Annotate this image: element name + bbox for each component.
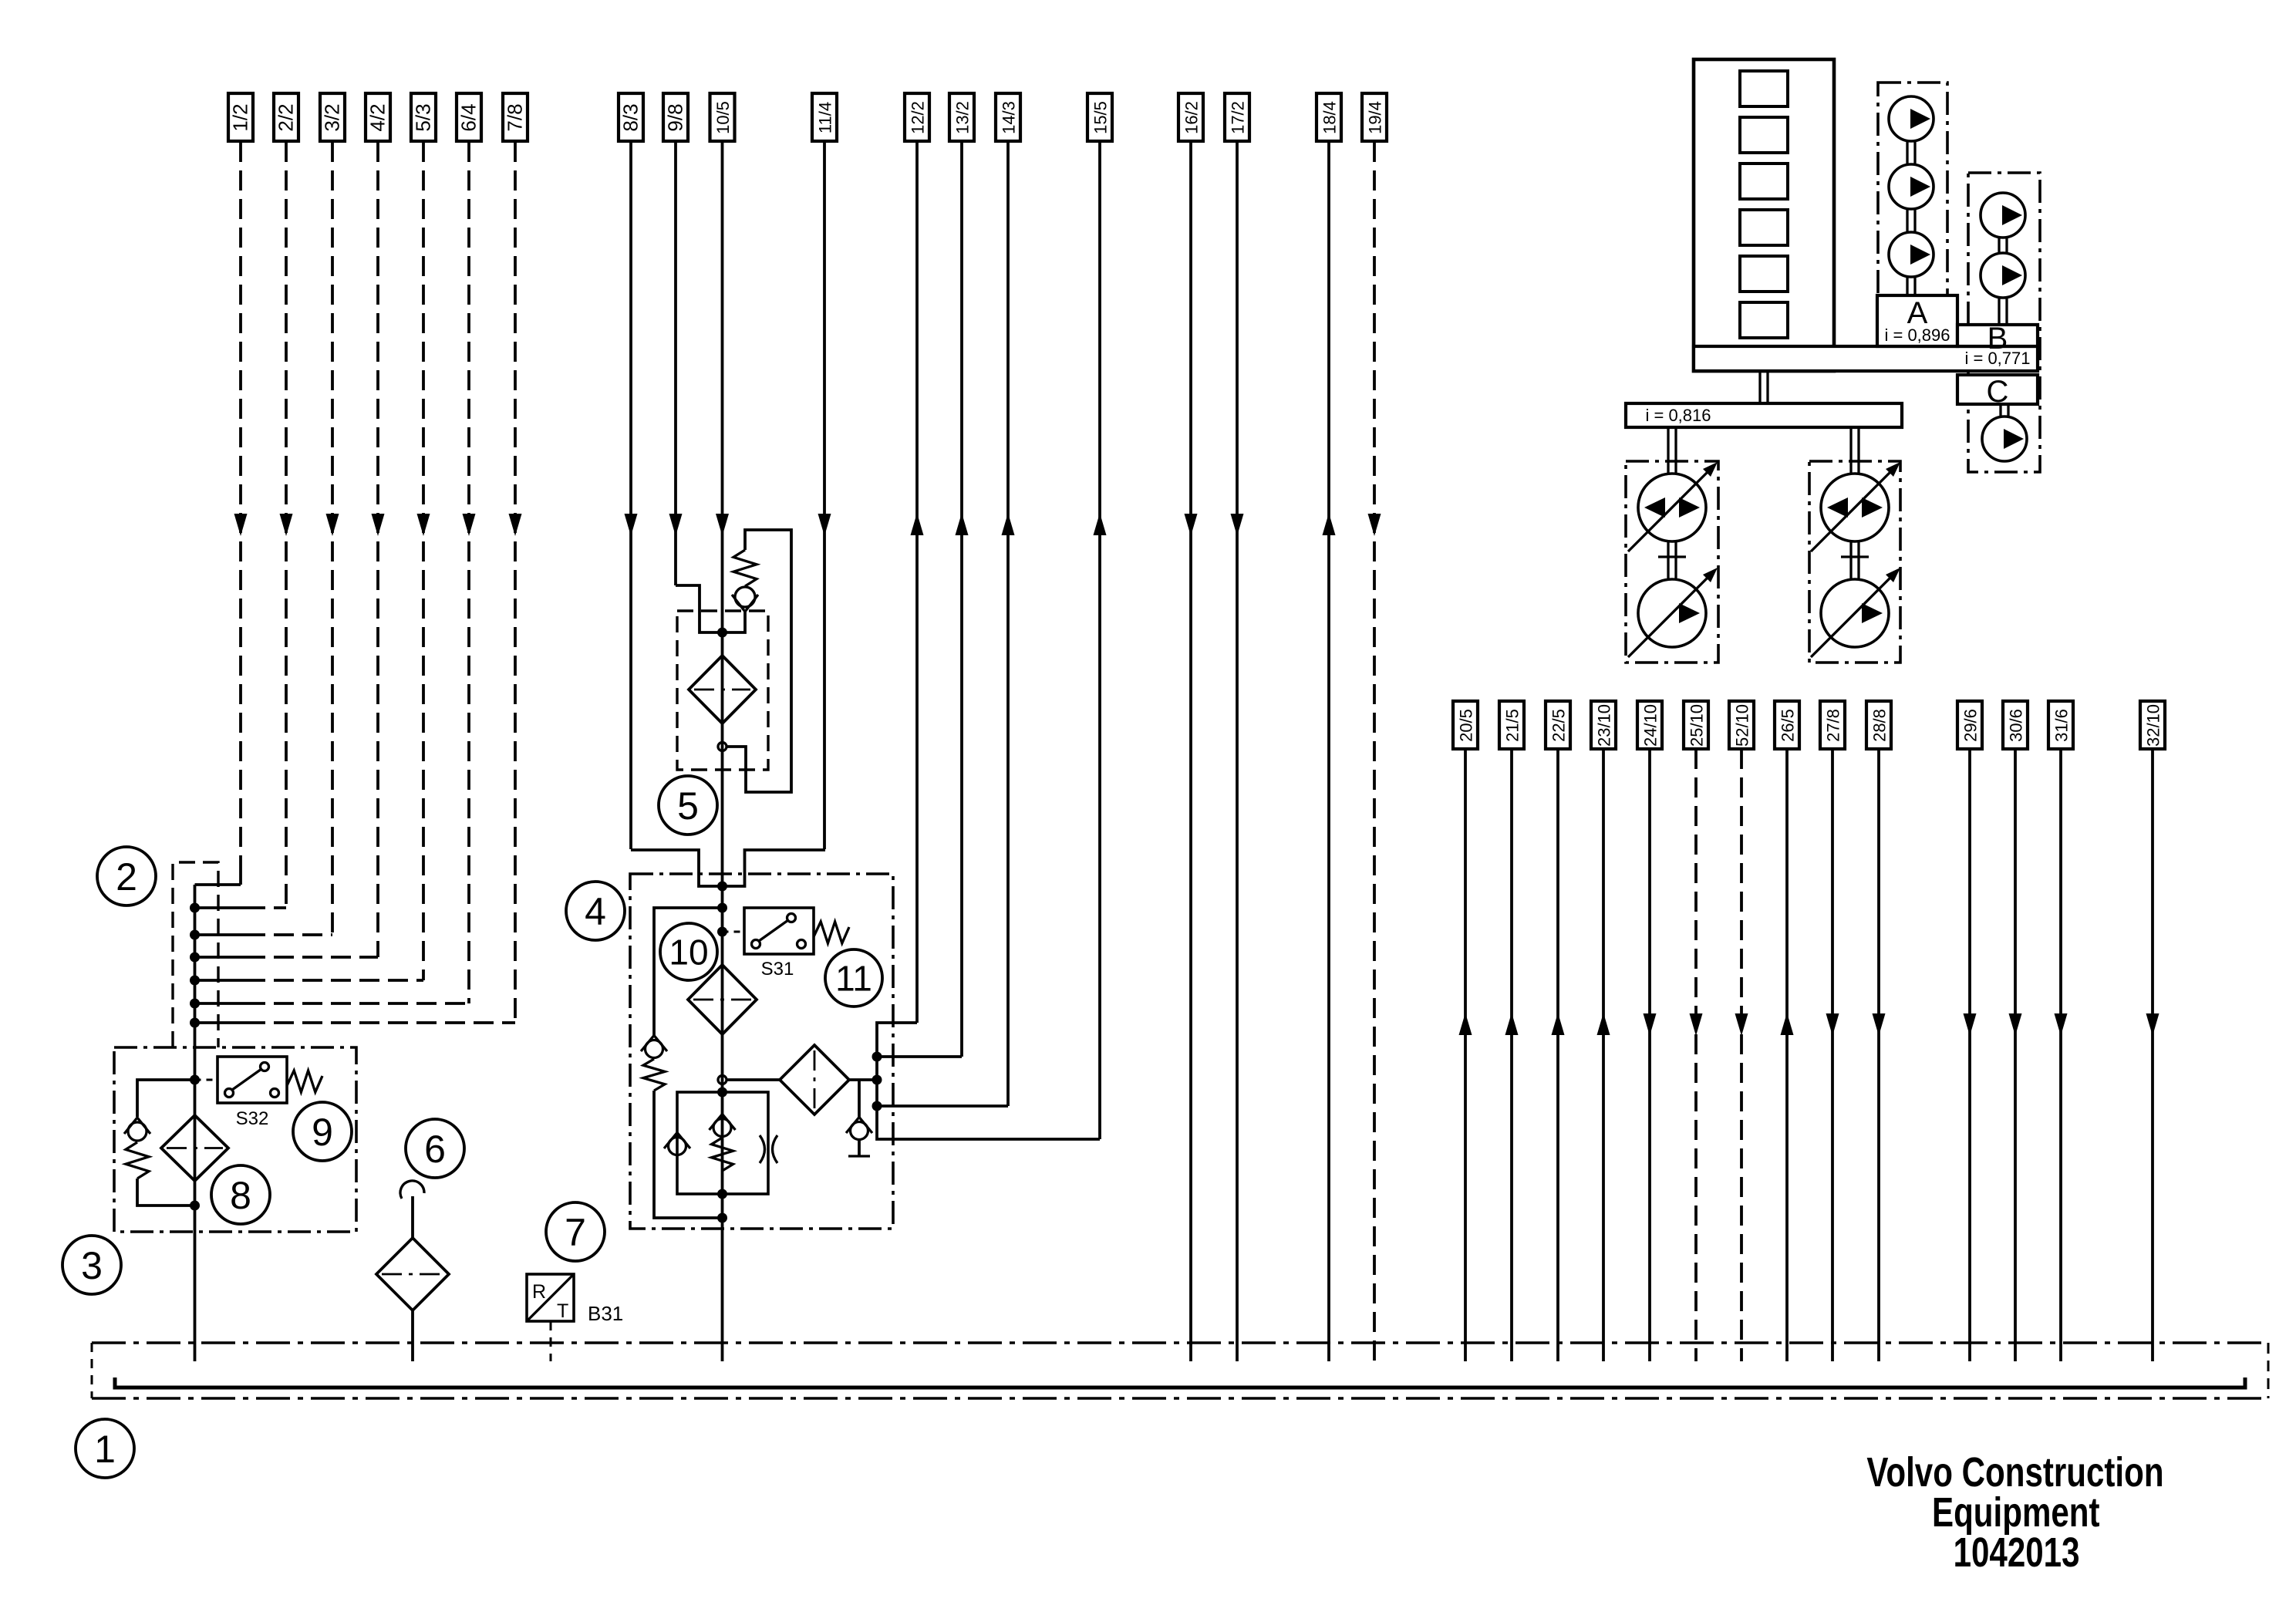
- wire from connector 15/5: [1094, 142, 1107, 1139]
- tank rail top dash-dot line: [92, 1341, 2268, 1344]
- svg-text:9: 9: [312, 1111, 333, 1154]
- callout 3: [62, 1236, 121, 1294]
- svg-text:15/5: 15/5: [1091, 101, 1111, 134]
- callout 4: [566, 882, 625, 940]
- svg-text:S31: S31: [761, 959, 794, 980]
- gear A box: [1877, 295, 1957, 346]
- wire from connector 32/10: [2146, 749, 2159, 1361]
- wire from connector 6/4: [463, 142, 476, 1003]
- svg-text:i = 0,816: i = 0,816: [1645, 406, 1711, 425]
- connector 22/5: [1546, 701, 1570, 749]
- connector 6/4: [457, 93, 481, 141]
- wire from connector 23/10: [1597, 749, 1610, 1361]
- svg-text:27/8: 27/8: [1824, 709, 1843, 742]
- connector 8/3: [619, 93, 643, 141]
- pump C1: [1982, 416, 2027, 461]
- connector 5/3: [411, 93, 436, 141]
- wire from connector 13/2: [956, 142, 969, 1057]
- svg-text:16/2: 16/2: [1182, 101, 1202, 134]
- svg-text:30/6: 30/6: [2007, 709, 2026, 742]
- variable pump left upper: [1628, 462, 1718, 551]
- component 5 enclosure dashed box: [677, 611, 768, 770]
- svg-text:B31: B31: [588, 1302, 623, 1325]
- svg-text:52/10: 52/10: [1733, 704, 1752, 747]
- wire from connector 1/2: [234, 142, 248, 885]
- spring of S32: [287, 1071, 322, 1092]
- junction above filter 5: [717, 628, 727, 638]
- wire from connector 17/2: [1231, 142, 1244, 1361]
- shaft engine band to gear A pumps: [1907, 141, 1915, 295]
- orifice symbol: [760, 1135, 777, 1163]
- wire collector tap 2: [190, 903, 286, 913]
- wire 9/8 staircase into filter 5: [676, 585, 723, 632]
- svg-text:23/10: 23/10: [1595, 704, 1614, 747]
- connector 21/5: [1499, 701, 1524, 749]
- callout 9: [293, 1102, 352, 1161]
- connector 9/8: [663, 93, 688, 141]
- svg-text:25/10: 25/10: [1687, 704, 1707, 747]
- wire from connector 52/10: [1735, 749, 1748, 1361]
- wire from connector 11/4: [818, 142, 831, 849]
- breather 6: [376, 1181, 449, 1361]
- svg-text:T: T: [557, 1300, 568, 1322]
- wire 11/4 staircase into node 4: [723, 850, 826, 886]
- connector 10/5: [710, 93, 735, 141]
- title text: [1866, 1449, 2163, 1576]
- variable pump right lower: [1811, 568, 1900, 657]
- shaft bar to left variable pumps: [1668, 427, 1676, 474]
- shaft gear C pump: [2001, 404, 2008, 417]
- svg-text:10: 10: [669, 932, 708, 973]
- pump group A dash-dot boundary: [1878, 83, 1947, 295]
- pump A2: [1889, 164, 1934, 209]
- svg-text:5/3: 5/3: [412, 103, 435, 131]
- wire from connector 27/8: [1826, 749, 1839, 1361]
- left relief branch of component 4: [641, 908, 723, 1218]
- wire from connector 21/5: [1505, 749, 1519, 1361]
- wire from connector 4/2: [372, 142, 385, 957]
- pump A3: [1889, 232, 1934, 277]
- wire from connector 9/8: [669, 142, 683, 585]
- connector 15/5: [1087, 93, 1112, 141]
- svg-text:32/10: 32/10: [2144, 704, 2163, 747]
- wire from connector 5/3: [417, 142, 430, 980]
- connector 24/10: [1637, 701, 1662, 749]
- pump group B/C dash-dot boundary: [1968, 173, 2040, 472]
- wire from connector 26/5: [1781, 749, 1794, 1361]
- connector 27/8: [1820, 701, 1845, 749]
- engine cylinder 4: [1740, 210, 1788, 245]
- svg-text:3: 3: [81, 1244, 103, 1287]
- wire from connector 3/2: [326, 142, 339, 935]
- connector 28/8: [1866, 701, 1891, 749]
- connector 19/4: [1362, 93, 1387, 141]
- wire from connector 12/2: [911, 142, 924, 1023]
- wire from connector 28/8: [1873, 749, 1886, 1361]
- filter 5 diamond: [689, 656, 756, 723]
- svg-text:1: 1: [94, 1428, 116, 1471]
- filter 8 diamond: [161, 1115, 228, 1181]
- wire collector tap 3: [190, 930, 332, 940]
- component 4 enclosure dash-dot box: [630, 874, 893, 1229]
- connector 4/2: [366, 93, 390, 141]
- wire collector tap 5: [190, 976, 423, 986]
- connector 52/10: [1729, 701, 1754, 749]
- callout 10: [660, 923, 717, 980]
- connector 2/2: [274, 93, 298, 141]
- wire main line to filter 11: [727, 1078, 780, 1081]
- svg-text:9/8: 9/8: [664, 103, 687, 131]
- connector 32/10: [2140, 701, 2165, 749]
- connector 11/4: [812, 93, 837, 141]
- check valve manifold box: [677, 1092, 768, 1194]
- svg-text:7: 7: [565, 1211, 586, 1254]
- engine cylinder 3: [1740, 164, 1788, 199]
- tank rail left end: [91, 1343, 93, 1398]
- svg-text:24/10: 24/10: [1641, 704, 1660, 747]
- variable pump left lower: [1628, 568, 1718, 657]
- connector 1/2: [228, 93, 253, 141]
- coupling shaft right: [1841, 541, 1869, 579]
- wire from connector 18/4: [1323, 142, 1336, 1361]
- callout 7: [546, 1202, 605, 1261]
- svg-text:6/4: 6/4: [457, 103, 480, 131]
- svg-text:22/5: 22/5: [1549, 709, 1569, 742]
- engine cylinder 6: [1740, 302, 1788, 338]
- connector 7/8: [503, 93, 528, 141]
- junction below filter 8: [190, 1201, 200, 1211]
- wire from connector 31/6: [2055, 749, 2068, 1361]
- svg-text:13/2: 13/2: [953, 101, 973, 134]
- wire from connector 7/8: [509, 142, 522, 1023]
- svg-text:28/8: 28/8: [1870, 709, 1890, 742]
- connector 25/10: [1684, 701, 1708, 749]
- middle spring check valve: [710, 1114, 736, 1172]
- drain check valve branch: [846, 1080, 872, 1156]
- svg-text:3/2: 3/2: [321, 103, 344, 131]
- svg-text:B: B: [1988, 322, 2008, 356]
- transfer gearbox bar: [1626, 403, 1902, 427]
- svg-text:4: 4: [585, 890, 606, 933]
- gear B box: [1957, 325, 2038, 346]
- gear C box: [1957, 375, 2038, 404]
- svg-text:1/2: 1/2: [229, 103, 252, 131]
- coupling shaft left: [1658, 541, 1686, 579]
- svg-text:29/6: 29/6: [1961, 709, 1981, 742]
- pump A1: [1889, 96, 1934, 141]
- callout 1: [76, 1419, 134, 1478]
- svg-text:18/4: 18/4: [1320, 101, 1340, 134]
- node collector manifold vertical wire: [194, 885, 197, 1361]
- connector 14/3: [996, 93, 1020, 141]
- svg-text:31/6: 31/6: [2052, 709, 2072, 742]
- tee joining 8/3 and 11/4 to main line: [717, 882, 727, 892]
- engine cylinder 5: [1740, 256, 1788, 292]
- wire collector tap 6: [190, 999, 469, 1009]
- svg-text:8: 8: [230, 1174, 251, 1217]
- wire filter 11 to return rail: [849, 1078, 877, 1081]
- svg-text:i = 0,896: i = 0,896: [1884, 325, 1950, 345]
- connector 29/6: [1957, 701, 1982, 749]
- connector 30/6: [2003, 701, 2028, 749]
- wire collector tap 7: [190, 1018, 515, 1028]
- connector 16/2: [1178, 93, 1203, 141]
- svg-text:2: 2: [116, 855, 137, 899]
- callout 8: [211, 1165, 270, 1224]
- filter 11 diamond: [780, 1045, 849, 1114]
- connector 23/10: [1591, 701, 1616, 749]
- component 3 enclosure dash-dot box: [114, 1047, 356, 1232]
- callout 11: [825, 949, 882, 1007]
- wire from connector 2/2: [280, 142, 293, 908]
- svg-text:R: R: [532, 1281, 546, 1303]
- svg-text:8/3: 8/3: [619, 103, 642, 131]
- engine cylinder 1: [1740, 71, 1788, 106]
- filter 10 diamond: [688, 965, 757, 1034]
- svg-text:11/4: 11/4: [816, 102, 835, 133]
- svg-text:26/5: 26/5: [1778, 709, 1798, 742]
- connector 20/5: [1453, 701, 1478, 749]
- wire from connector 19/4: [1368, 142, 1381, 1361]
- svg-text:C: C: [1987, 375, 2009, 409]
- svg-text:12/2: 12/2: [909, 101, 928, 134]
- svg-text:7/8: 7/8: [504, 103, 527, 131]
- wire 8/3 staircase into node 4: [631, 850, 723, 886]
- bypass relief check valve of component 3: [124, 1080, 195, 1206]
- gearbox output band: [1694, 346, 2038, 371]
- wire from connector 22/5: [1552, 749, 1565, 1361]
- svg-text:2/2: 2/2: [275, 103, 298, 131]
- engine block: [1694, 59, 1834, 371]
- connector 31/6: [2048, 701, 2073, 749]
- left check valve: [664, 1133, 690, 1155]
- temperature sensor B31: [527, 1274, 623, 1361]
- pressure switch S31: [723, 908, 814, 954]
- svg-text:14/3: 14/3: [1000, 101, 1019, 134]
- engine cylinder 2: [1740, 117, 1788, 153]
- callout 5: [659, 776, 717, 835]
- wire from connector 25/10: [1690, 749, 1703, 1361]
- svg-text:5: 5: [677, 784, 699, 828]
- shaft engine to transfer gearbox: [1760, 371, 1768, 403]
- shaft gear B pumps: [1999, 238, 2007, 325]
- variable pump group left dash-dot boundary: [1626, 461, 1718, 663]
- svg-text:21/5: 21/5: [1503, 709, 1522, 742]
- node between filters: [718, 1076, 727, 1084]
- wire from connector 30/6: [2009, 749, 2022, 1361]
- variable pump right upper: [1811, 462, 1900, 551]
- wire from connector 10/5: [716, 142, 729, 1361]
- tank trough solid line: [115, 1378, 2245, 1388]
- svg-text:11: 11: [835, 959, 872, 999]
- pump B2: [1981, 253, 2025, 298]
- svg-text:1042013: 1042013: [1954, 1529, 2080, 1576]
- svg-text:20/5: 20/5: [1457, 709, 1476, 742]
- wire from connector 20/5: [1459, 749, 1472, 1361]
- callout 6: [406, 1119, 464, 1178]
- svg-text:19/4: 19/4: [1366, 101, 1385, 134]
- variable pump group right dash-dot boundary: [1809, 461, 1900, 663]
- svg-text:4/2: 4/2: [366, 103, 389, 131]
- wire from connector 29/6: [1964, 749, 1977, 1361]
- return rail collecting 12/2 13/2 14/3 15/5: [872, 1023, 1101, 1139]
- connector 3/2: [320, 93, 345, 141]
- connector 13/2: [949, 93, 974, 141]
- pump B1: [1981, 193, 2025, 238]
- svg-text:S32: S32: [236, 1108, 269, 1129]
- connector 26/5: [1775, 701, 1799, 749]
- tank rail bottom dash-dot line: [92, 1397, 2268, 1399]
- callout 2: [97, 847, 156, 905]
- connector 18/4: [1317, 93, 1341, 141]
- pressure switch S32: [195, 1057, 288, 1103]
- junction on collector at S32 tap: [190, 1075, 200, 1085]
- wire collector tap 4: [190, 953, 378, 963]
- shaft bar to right variable pumps: [1851, 427, 1859, 474]
- spring of S31: [814, 922, 849, 943]
- wire from connector 16/2: [1185, 142, 1198, 1361]
- svg-text:6: 6: [424, 1128, 446, 1171]
- wire from connector 8/3: [625, 142, 638, 849]
- connector 12/2: [905, 93, 929, 141]
- svg-text:10/5: 10/5: [713, 101, 733, 134]
- bypass relief valve of filter 5: [718, 530, 791, 792]
- wire from connector 14/3: [1002, 142, 1015, 1106]
- wire from connector 24/10: [1644, 749, 1657, 1361]
- tank rail right end: [2267, 1343, 2270, 1398]
- svg-text:17/2: 17/2: [1229, 101, 1248, 134]
- wire 1/2 to collector corner: [195, 883, 241, 886]
- connector 17/2: [1225, 93, 1249, 141]
- connector block 2 dashed boundary: [173, 862, 218, 1047]
